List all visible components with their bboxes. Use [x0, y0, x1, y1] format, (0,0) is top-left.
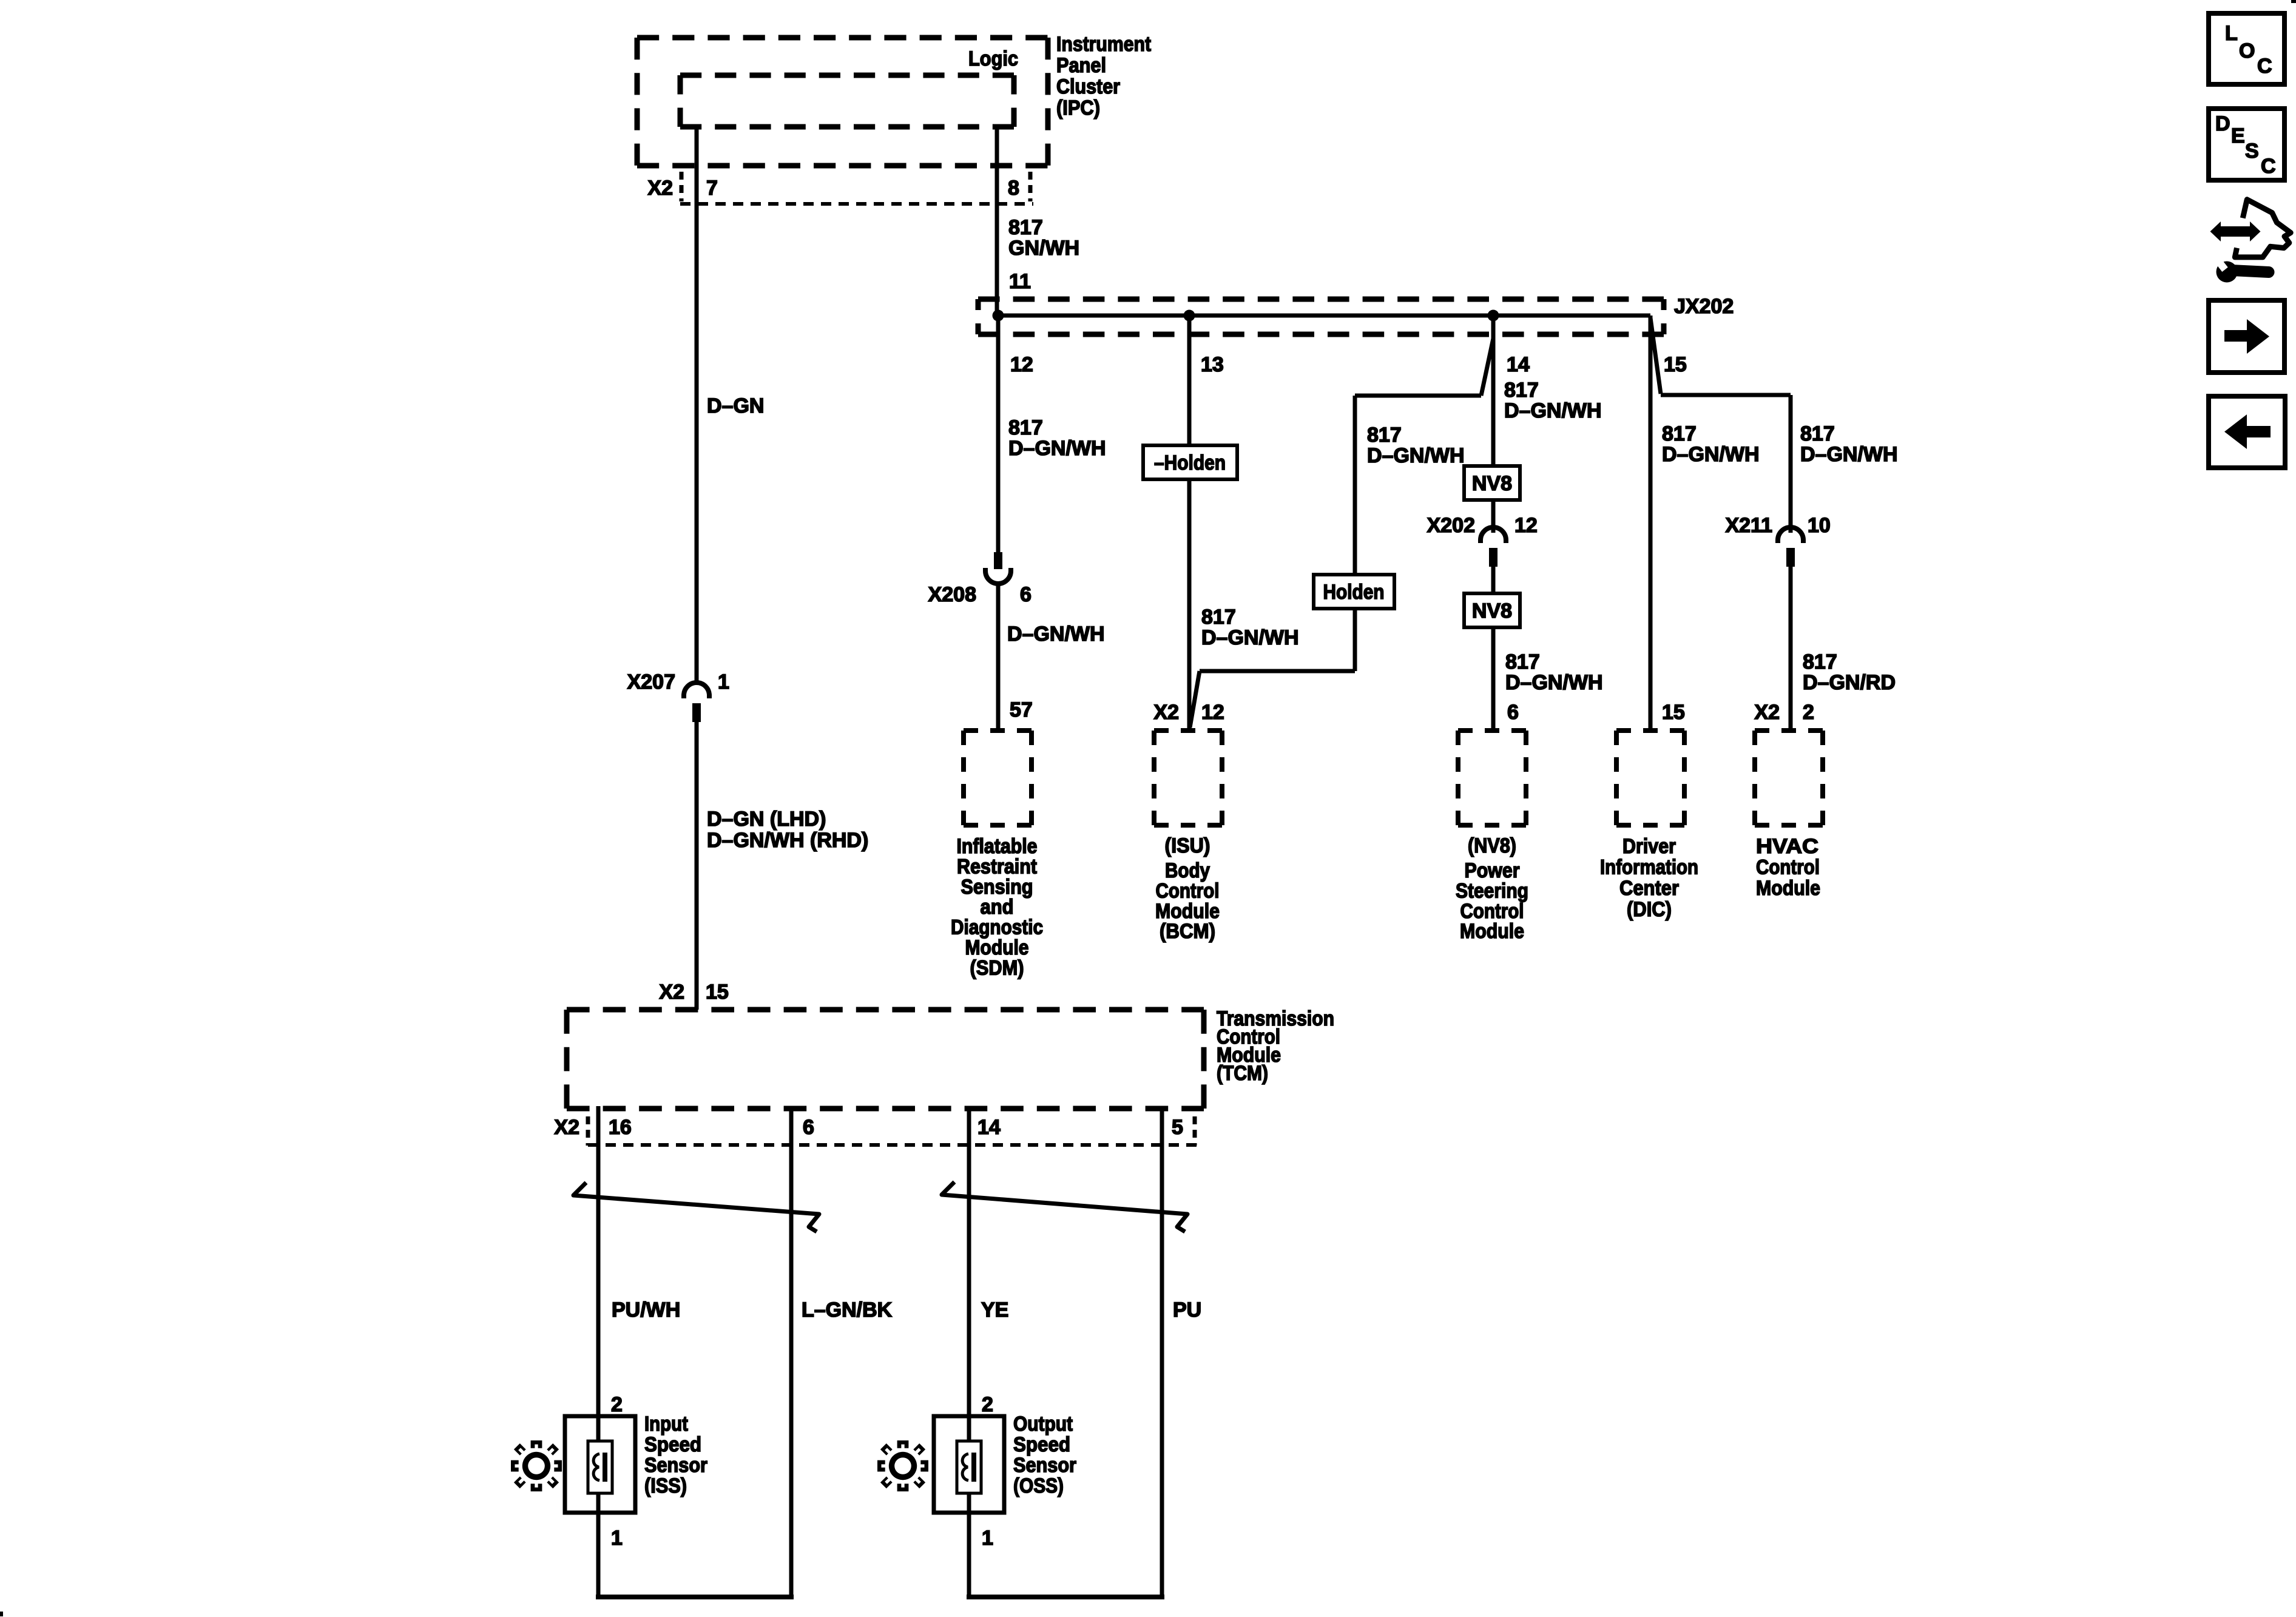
- svg-text:6: 6: [1020, 583, 1032, 606]
- svg-text:Driver: Driver: [1622, 835, 1676, 858]
- svg-text:X2: X2: [659, 981, 684, 1004]
- svg-text:X202: X202: [1427, 514, 1475, 537]
- svg-text:D–GN/WH: D–GN/WH: [1008, 437, 1106, 460]
- svg-text:2: 2: [982, 1393, 993, 1416]
- svg-text:Instrument: Instrument: [1056, 33, 1151, 56]
- svg-text:YE: YE: [981, 1298, 1008, 1322]
- svg-text:Module: Module: [1460, 920, 1524, 943]
- svg-text:HVAC: HVAC: [1756, 835, 1818, 858]
- svg-text:D–GN/WH: D–GN/WH: [1367, 444, 1465, 467]
- svg-text:6: 6: [803, 1116, 814, 1139]
- svg-text:D–GN/WH (RHD): D–GN/WH (RHD): [707, 829, 868, 852]
- svg-text:8: 8: [1008, 177, 1019, 200]
- svg-text:Module: Module: [1155, 900, 1220, 923]
- svg-text:(NV8): (NV8): [1468, 834, 1516, 857]
- svg-text:Control: Control: [1460, 900, 1524, 923]
- svg-text:(OSS): (OSS): [1013, 1474, 1064, 1497]
- svg-text:D–GN/WH: D–GN/WH: [1505, 671, 1603, 694]
- svg-text:817: 817: [1201, 606, 1236, 629]
- svg-text:16: 16: [609, 1116, 632, 1139]
- svg-text:C: C: [2257, 55, 2272, 78]
- svg-text:12: 12: [1201, 701, 1224, 724]
- svg-text:1: 1: [982, 1527, 993, 1550]
- svg-text:Module: Module: [1756, 877, 1820, 900]
- svg-text:817: 817: [1662, 422, 1697, 445]
- svg-text:817: 817: [1504, 379, 1539, 402]
- svg-text:Output: Output: [1013, 1413, 1073, 1436]
- svg-text:Center: Center: [1619, 877, 1679, 900]
- svg-text:Holden: Holden: [1323, 581, 1385, 604]
- svg-text:(SDM): (SDM): [970, 956, 1024, 979]
- svg-text:Information: Information: [1600, 856, 1698, 879]
- svg-text:1: 1: [611, 1527, 623, 1550]
- svg-text:D: D: [2215, 112, 2230, 135]
- svg-text:(DIC): (DIC): [1627, 898, 1672, 921]
- svg-text:C: C: [2261, 155, 2276, 178]
- svg-text:S: S: [2245, 140, 2259, 163]
- svg-text:6: 6: [1507, 701, 1519, 724]
- svg-text:X2: X2: [554, 1116, 579, 1139]
- svg-text:Control: Control: [1156, 879, 1220, 902]
- svg-text:NV8: NV8: [1472, 599, 1512, 623]
- svg-text:Diagnostic: Diagnostic: [951, 916, 1043, 939]
- svg-text:817: 817: [1803, 650, 1837, 673]
- svg-text:X2: X2: [1153, 701, 1179, 724]
- svg-text:817: 817: [1008, 216, 1043, 239]
- svg-text:–Holden: –Holden: [1154, 451, 1226, 474]
- svg-text:(TCM): (TCM): [1217, 1062, 1268, 1085]
- svg-text:817: 817: [1505, 650, 1540, 673]
- svg-text:817: 817: [1367, 424, 1402, 447]
- svg-text:E: E: [2231, 124, 2245, 147]
- svg-text:817: 817: [1008, 416, 1043, 439]
- svg-text:PU/WH: PU/WH: [612, 1298, 680, 1322]
- svg-text:Module: Module: [965, 936, 1029, 959]
- svg-text:X207: X207: [627, 670, 675, 694]
- svg-text:Logic: Logic: [968, 47, 1018, 70]
- svg-text:JX202: JX202: [1674, 295, 1734, 318]
- svg-text:NV8: NV8: [1472, 472, 1512, 495]
- svg-text:13: 13: [1201, 353, 1224, 376]
- svg-text:Sensor: Sensor: [1013, 1454, 1076, 1477]
- svg-text:(ISU): (ISU): [1165, 834, 1210, 857]
- svg-text:15: 15: [706, 981, 729, 1004]
- svg-text:L: L: [2225, 22, 2238, 45]
- svg-text:2: 2: [611, 1393, 623, 1416]
- svg-text:Control: Control: [1756, 856, 1820, 879]
- svg-text:D–GN (LHD): D–GN (LHD): [707, 808, 826, 831]
- svg-text:7: 7: [706, 177, 718, 200]
- svg-text:D–GN/WH: D–GN/WH: [1662, 443, 1760, 466]
- svg-text:Power: Power: [1465, 859, 1520, 882]
- svg-text:Sensing: Sensing: [961, 876, 1033, 899]
- svg-text:GN/WH: GN/WH: [1008, 237, 1079, 260]
- svg-text:D–GN/WH: D–GN/WH: [1007, 623, 1105, 646]
- svg-text:Sensor: Sensor: [644, 1454, 707, 1477]
- svg-text:(BCM): (BCM): [1160, 920, 1215, 943]
- svg-text:L–GN/BK: L–GN/BK: [802, 1298, 893, 1322]
- svg-text:57: 57: [1010, 698, 1033, 721]
- svg-text:D–GN: D–GN: [707, 394, 764, 417]
- svg-text:Panel: Panel: [1056, 54, 1106, 77]
- svg-text:D–GN/WH: D–GN/WH: [1201, 626, 1299, 649]
- svg-text:11: 11: [1009, 270, 1031, 293]
- svg-text:10: 10: [1808, 514, 1831, 537]
- svg-text:X2: X2: [647, 177, 673, 200]
- svg-text:D–GN/WH: D–GN/WH: [1504, 399, 1602, 422]
- svg-text:Inflatable: Inflatable: [957, 835, 1038, 858]
- svg-text:12: 12: [1514, 514, 1538, 537]
- svg-text:5: 5: [1172, 1116, 1183, 1139]
- svg-text:X208: X208: [928, 583, 976, 606]
- svg-text:1: 1: [718, 670, 729, 694]
- svg-text:12: 12: [1010, 353, 1033, 376]
- svg-text:2: 2: [1803, 701, 1814, 724]
- svg-text:15: 15: [1664, 353, 1687, 376]
- svg-text:817: 817: [1800, 422, 1835, 445]
- svg-text:and: and: [981, 896, 1014, 919]
- svg-text:15: 15: [1662, 701, 1685, 724]
- svg-text:Speed: Speed: [1013, 1433, 1070, 1456]
- svg-text:O: O: [2239, 39, 2255, 62]
- svg-text:X2: X2: [1754, 701, 1780, 724]
- svg-text:Speed: Speed: [644, 1433, 701, 1456]
- svg-text:D–GN/WH: D–GN/WH: [1800, 443, 1898, 466]
- svg-text:Cluster: Cluster: [1056, 75, 1120, 98]
- svg-text:Steering: Steering: [1456, 879, 1528, 902]
- svg-text:Restraint: Restraint: [957, 855, 1037, 878]
- svg-text:(IPC): (IPC): [1056, 96, 1100, 120]
- svg-text:14: 14: [1507, 353, 1530, 376]
- svg-text:D–GN/RD: D–GN/RD: [1803, 671, 1896, 694]
- svg-text:(ISS): (ISS): [644, 1474, 687, 1497]
- svg-text:PU: PU: [1173, 1298, 1201, 1322]
- svg-text:14: 14: [977, 1116, 1001, 1139]
- svg-text:X211: X211: [1725, 514, 1772, 537]
- svg-text:Body: Body: [1165, 859, 1210, 882]
- svg-text:Input: Input: [644, 1413, 688, 1436]
